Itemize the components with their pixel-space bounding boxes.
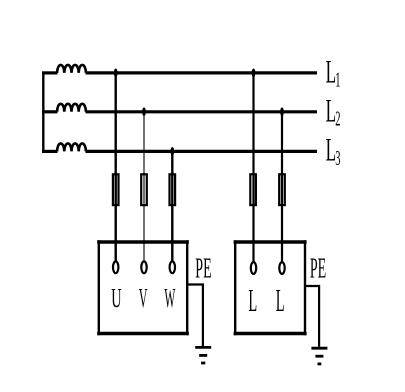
fuse F4 — [250, 174, 256, 205]
svg-text:L: L — [326, 132, 336, 168]
box: left device — [97, 240, 189, 335]
terminal V — [141, 261, 146, 273]
ground right — [311, 348, 327, 364]
wire: line L1 right segment — [86, 71, 318, 74]
svg-text:L: L — [248, 284, 257, 319]
inductor on line L3 — [57, 143, 86, 151]
svg-text:U: U — [111, 282, 121, 313]
fuse F1 — [113, 174, 119, 205]
terminal W — [170, 261, 175, 273]
ground left — [195, 347, 211, 363]
wire: PE right — [305, 286, 319, 347]
wire: drop right L-b — [281, 112, 283, 262]
wire: PE left — [187, 285, 203, 347]
terminal L-b — [279, 262, 284, 274]
box: right device — [234, 240, 307, 335]
inductor on line L2 — [57, 104, 86, 112]
fuse F3 — [170, 174, 176, 205]
wire: line L2 left segment — [42, 110, 58, 113]
wire: drop V (thin) — [143, 112, 145, 262]
wire: line L3 right segment — [86, 150, 318, 153]
node: junction L2-V — [142, 107, 146, 116]
node: junction L1-U — [114, 69, 118, 78]
svg-text:1: 1 — [335, 68, 340, 92]
terminal L-a — [251, 262, 256, 274]
terminal U — [113, 261, 118, 273]
svg-text:V: V — [139, 282, 148, 313]
svg-text:2: 2 — [335, 107, 340, 131]
wire: line L1 left segment — [42, 71, 58, 74]
svg-text:PE: PE — [310, 252, 326, 284]
node: junction L1-right — [252, 69, 256, 78]
wire: line L3 left segment — [42, 150, 58, 153]
svg-text:L: L — [276, 284, 285, 319]
node: junction L2-right — [280, 107, 284, 116]
svg-text:L: L — [326, 53, 336, 89]
svg-text:PE: PE — [195, 252, 211, 284]
svg-text:3: 3 — [335, 146, 340, 170]
fuse F5 — [279, 174, 285, 205]
wire: drop W — [171, 151, 173, 261]
wire: drop U — [114, 73, 116, 262]
svg-text:L: L — [326, 93, 336, 129]
svg-text:W: W — [164, 282, 175, 313]
wire: left vertical bus — [42, 72, 44, 153]
node: junction L3-W — [170, 147, 174, 156]
fuse F2 — [141, 174, 147, 205]
wire: drop right L-a — [252, 73, 254, 262]
wire: line L2 right segment — [86, 110, 318, 113]
inductor on line L1 — [57, 65, 86, 73]
